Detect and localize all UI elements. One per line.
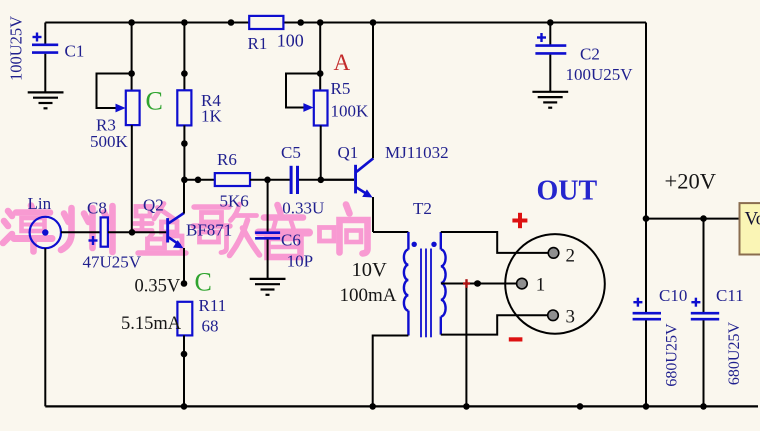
capacitor C8 [83,199,142,272]
ground (C1) [28,92,64,108]
svg-text:R5: R5 [331,79,351,98]
resistor R6 [184,150,290,211]
svg-text:1: 1 [536,275,546,296]
char xiang [320,205,368,254]
svg-text:2: 2 [566,245,576,266]
char yin [259,205,310,257]
junction bottom rail / tap return [463,403,470,410]
svg-text:C11: C11 [716,286,744,305]
wire secondary bottom to pin3 [441,315,548,334]
svg-text:0.35V: 0.35V [135,276,181,296]
polarity - (red) [509,337,523,341]
svg-text:100: 100 [277,31,304,51]
wire top rail [45,22,646,24]
potentiometer R3 [90,23,140,233]
junction R3 wiper [128,70,135,77]
junction top rail / R3 branch [128,19,135,26]
svg-text:OUT: OUT [537,176,598,207]
junction Q2 emitter / node C [181,280,188,287]
svg-text:680U25V: 680U25V [664,323,681,387]
transistor Q2 [135,180,232,284]
polarity + (red) [512,213,527,228]
svg-text:C1: C1 [65,42,85,61]
junction bottom rail / R11 [181,403,188,410]
svg-text:T2: T2 [413,199,432,218]
junction C8 / Q2 base / R3 bottom [129,229,136,236]
resistor R4 [177,23,222,180]
junction bottom rail / C10 [643,403,650,410]
junction top rail / C2 branch [547,19,554,26]
junction R6 left / Q2 collector [181,177,188,184]
svg-text:+20V: +20V [665,168,716,193]
capacitor C10 [633,286,688,406]
WATERMARK 漳州鹭歌音响 [3,204,368,258]
svg-text:Vo: Vo [745,209,760,230]
junction C5 right / R5 bottom [318,177,325,184]
bottom rail [45,405,758,407]
capacitor C2 [535,23,633,92]
char lu [134,204,186,254]
svg-text:R1: R1 [248,34,268,53]
svg-text:100K: 100K [331,102,370,121]
wire primary bottom [373,336,409,407]
svg-text:A: A [334,50,351,75]
junction bottom rail mid [577,403,584,410]
ground (C2) [532,92,568,108]
transformer T2 [340,199,446,337]
svg-text:C: C [195,268,212,297]
svg-text:R11: R11 [199,296,227,315]
svg-text:10P: 10P [287,251,313,270]
capacitor C5 [281,143,354,217]
junction R11 bottom [181,351,188,358]
svg-text:500K: 500K [90,132,129,151]
resistor R11 [177,296,226,406]
svg-text:5K6: 5K6 [220,192,249,211]
svg-text:C: C [146,87,163,116]
junction secondary tap [474,280,481,286]
transistor Q1 [321,23,449,233]
capacitor C11 [691,286,744,406]
connector OUT circle [505,234,605,334]
svg-text:68: 68 [202,317,219,336]
svg-text:10V: 10V [352,259,388,281]
junction R6 left stub [195,177,202,184]
svg-text:C8: C8 [87,199,107,218]
junction bottom rail / C11 [700,403,707,410]
wire secondary top to pin2 [441,232,549,253]
wire tap down to rail [465,284,467,407]
char zhou [61,206,113,252]
svg-text:680U25V: 680U25V [726,322,743,386]
junction +20V rail / C11 branch [700,215,707,222]
svg-text:BF871: BF871 [186,221,232,240]
junction top rail / Q1 collector branch [370,19,377,26]
potentiometer R5 [286,23,369,180]
junction top rail / R5 branch [317,19,324,26]
svg-text:100U25V: 100U25V [566,65,634,84]
capacitor C6 [255,180,313,279]
svg-text:1K: 1K [201,107,223,126]
junction R5 wiper [317,70,324,77]
wire secondary tap to pin1 [441,283,517,285]
marker red cross [463,279,470,288]
svg-text:0.33U: 0.33U [282,199,324,218]
resistor R1 [248,16,304,53]
capacitor C1 [7,16,85,93]
svg-text:C2: C2 [580,45,600,64]
svg-text:Lin: Lin [28,194,52,213]
connector Lin [28,194,101,406]
junction top rail / R1 left [228,19,235,26]
svg-text:100U25V: 100U25V [7,16,26,81]
junction top rail / R4 branch [181,19,188,26]
junction R6 right / C6 branch [264,177,271,184]
svg-text:Q1: Q1 [338,143,359,162]
svg-text:100mA: 100mA [340,285,397,306]
char zhang [3,206,52,252]
junction +20V rail / C10 branch [643,215,650,222]
svg-text:R6: R6 [217,150,237,169]
junction top rail / R1 right [297,19,304,26]
svg-text:Q2: Q2 [143,196,164,215]
svg-text:5.15mA: 5.15mA [121,314,182,334]
svg-text:C10: C10 [659,286,687,305]
svg-text:C5: C5 [281,143,301,162]
svg-text:47U25V: 47U25V [83,253,142,272]
Vout block (yellow) [740,203,760,254]
+20V rail [646,23,740,313]
junction R4 bottom [181,140,188,147]
svg-text:MJ11032: MJ11032 [385,143,449,162]
junction R4 wire [181,70,188,77]
svg-text:C6: C6 [281,231,301,250]
junction bottom rail / primary return [369,403,376,410]
svg-text:3: 3 [566,306,576,327]
ground (C6) [250,279,286,295]
char ge [193,204,260,256]
